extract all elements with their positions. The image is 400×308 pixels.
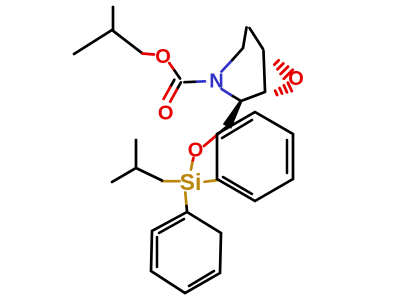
Si tBu methyl a xyxy=(112,168,136,182)
svg-text:N: N xyxy=(209,71,223,93)
phenyl B inner aromatic line top-left xyxy=(222,120,252,138)
C-O ester bond black half xyxy=(112,30,143,54)
svg-text:O: O xyxy=(158,103,174,125)
Si right bond to phenyl ipso xyxy=(205,180,219,182)
bold wedge C4-CH2 xyxy=(223,100,243,129)
phenyl A inner aromatic line bottom xyxy=(189,271,214,286)
CH2-O bond black half xyxy=(218,127,227,135)
tBu methyl 2 xyxy=(112,7,115,30)
ring bond C5-C4 xyxy=(241,92,265,101)
phenyl A inner aromatic line top xyxy=(159,219,184,233)
phenyl A ring xyxy=(151,212,221,293)
ester O to carbonyl C bond xyxy=(169,63,174,71)
phenyl B ring xyxy=(217,112,293,201)
Si tBu methyl b xyxy=(135,140,138,168)
phenyl A inner aromatic line left xyxy=(156,237,159,267)
Si left bond gold half xyxy=(162,180,180,183)
svg-text:O: O xyxy=(188,140,204,162)
ring bond C4-N xyxy=(231,95,241,101)
C-N amide bond xyxy=(185,80,198,83)
carbonyl C=O double bond line 1 xyxy=(170,80,174,87)
phenyl B inner aromatic line bottom xyxy=(223,177,252,194)
ring bond C1-C5 vertical xyxy=(264,51,266,91)
svg-text:Si: Si xyxy=(180,169,202,195)
bridge roof right xyxy=(250,28,264,49)
tBu methyl 1 xyxy=(74,30,112,54)
svg-text:O: O xyxy=(155,46,171,68)
phenyl B inner aromatic line right xyxy=(286,140,289,173)
N-C1 ring bond xyxy=(222,60,233,72)
C-O ester bond red half xyxy=(143,54,155,55)
carbonyl C=O double bond line 2 xyxy=(177,82,181,89)
bridge roof left xyxy=(243,28,247,49)
CH2-O bond red half xyxy=(204,134,218,146)
hashed wedge C1 to epoxide O xyxy=(274,60,292,78)
O-Si bond xyxy=(192,158,193,163)
Si left bond black half xyxy=(136,168,162,181)
hashed wedge C5 to epoxide O xyxy=(275,83,292,95)
svg-text:O: O xyxy=(288,68,304,90)
Si down bond xyxy=(185,193,186,207)
